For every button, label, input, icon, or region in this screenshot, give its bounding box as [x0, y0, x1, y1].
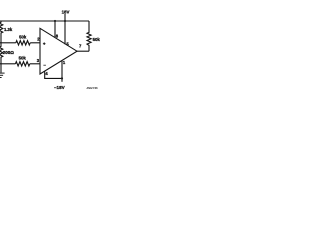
op-amp + input mark: [43, 42, 46, 45]
svg-text:50k: 50k: [19, 35, 27, 40]
resistor 50k (lower, to pin 3): [15, 62, 29, 66]
svg-text:–18V: –18V: [54, 85, 66, 90]
wire pin 4 to negative rail: [45, 71, 62, 79]
wire 50k to op-amp pin 3: [30, 63, 40, 65]
svg-text:50k: 50k: [19, 55, 27, 60]
resistor 1.3k (left edge, half clipped): [0, 21, 3, 43]
wire pin 5 drop: [64, 21, 66, 44]
svg-text:50k: 50k: [93, 37, 100, 42]
wire pin 1 down: [61, 61, 63, 79]
node 18V rail / pin 5 junction: [64, 20, 66, 22]
node 18V rail / pin 8 junction: [54, 20, 56, 22]
wire non-inverting input line (pin 2): [0, 42, 16, 44]
wire 50k to op-amp pin 2: [30, 42, 40, 44]
svg-text:18V: 18V: [62, 9, 70, 14]
wire top +18V rail: [0, 20, 89, 22]
svg-text:200Ω: 200Ω: [3, 50, 15, 55]
ground (left edge, half clipped): [0, 73, 5, 74]
wire to -18V label: [61, 78, 63, 81]
node pin1/pin4 junction: [61, 77, 63, 79]
wire divider to ground: [0, 64, 2, 73]
resistor 50k (pull-up, right): [87, 21, 91, 51]
op-amp - input mark: [43, 64, 46, 67]
op-amp U1 triangle: [40, 28, 77, 74]
svg-text:AN42 F08: AN42 F08: [87, 87, 99, 90]
svg-text:1.3k: 1.3k: [4, 27, 13, 32]
wire inverting input line (pin 3): [0, 63, 15, 65]
resistor 50k (upper, to pin 2): [16, 41, 30, 45]
wire pin 7 output: [77, 50, 89, 52]
resistor 200ohm (left edge, half clipped): [0, 43, 3, 64]
wire 18V supply lead: [64, 14, 66, 21]
wire pin 8 supply drop: [54, 21, 56, 37]
